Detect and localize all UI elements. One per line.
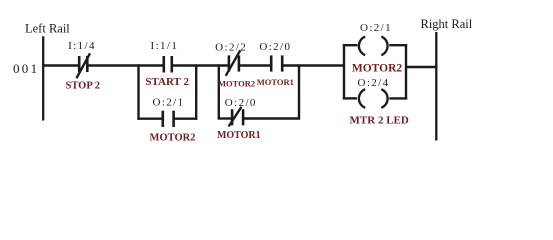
svg-text:O:2/4: O:2/4	[357, 77, 389, 89]
svg-text:MOTOR2: MOTOR2	[218, 79, 255, 89]
coil box left vertical	[343, 44, 345, 99]
branch 2 left vertical	[218, 64, 220, 119]
svg-text:STOP 2: STOP 2	[66, 81, 101, 92]
branch 2 right vertical	[298, 64, 300, 119]
branch 1 bottom wire right	[174, 117, 198, 119]
coil box bottom wire left	[343, 97, 357, 99]
NC slash of O:2/2	[226, 50, 241, 76]
contact O:2/0 lower (NC)	[232, 109, 243, 125]
coil O:2/4 arcs	[359, 89, 388, 108]
svg-text:I:1/4: I:1/4	[68, 40, 96, 52]
svg-text:O:2/0: O:2/0	[259, 41, 291, 53]
branch 1 bottom wire left	[137, 117, 162, 119]
svg-text:Left Rail: Left Rail	[25, 22, 70, 36]
contact O:2/2 (NC)	[229, 55, 239, 71]
wire: O:2/0 to coil box	[282, 64, 345, 66]
coil box top wire left	[343, 44, 358, 46]
NC slash of I:1/4	[77, 53, 91, 78]
wire: coil box to right rail	[406, 66, 438, 68]
svg-text:001: 001	[13, 61, 39, 76]
coil box top wire right	[389, 44, 407, 46]
svg-text:O:2/1: O:2/1	[152, 97, 184, 109]
branch 2 bottom wire right	[243, 117, 300, 119]
branch 1 left vertical	[137, 64, 139, 119]
coil box bottom wire right	[389, 97, 407, 99]
svg-text:I:1/1: I:1/1	[151, 40, 179, 52]
svg-text:Right Rail: Right Rail	[421, 17, 473, 31]
svg-text:O:2/2: O:2/2	[215, 41, 247, 53]
svg-text:MOTOR1: MOTOR1	[217, 130, 261, 141]
coil box right vertical	[405, 44, 407, 99]
left rail	[42, 36, 44, 120]
contact I:1/1 (NO)	[164, 56, 172, 73]
wire: I:1/4 to I:1/1	[87, 64, 164, 66]
wire: O:2/2 to O:2/0	[239, 64, 271, 66]
right rail	[435, 32, 437, 141]
svg-text:O:2/0: O:2/0	[225, 97, 257, 109]
svg-text:MTR 2 LED: MTR 2 LED	[350, 114, 409, 126]
branch 1 right vertical	[195, 64, 197, 119]
svg-text:START 2: START 2	[145, 76, 189, 88]
contact I:1/4 (NC)	[79, 56, 87, 72]
svg-text:MOTOR2: MOTOR2	[352, 63, 403, 75]
contact O:2/0 top (NO)	[271, 55, 282, 71]
branch 2 bottom wire left	[218, 117, 232, 119]
svg-text:MOTOR1: MOTOR1	[257, 77, 294, 87]
svg-text:MOTOR2: MOTOR2	[150, 132, 196, 143]
coil O:2/1 arcs	[359, 37, 388, 56]
wire: left rail to I:1/4	[42, 64, 79, 66]
wire: I:1/1 to O:2/2	[172, 64, 229, 66]
contact O:2/1 (NO)	[163, 111, 174, 127]
svg-text:O:2/1: O:2/1	[360, 22, 392, 34]
NC slash of lower O:2/0	[229, 107, 242, 127]
